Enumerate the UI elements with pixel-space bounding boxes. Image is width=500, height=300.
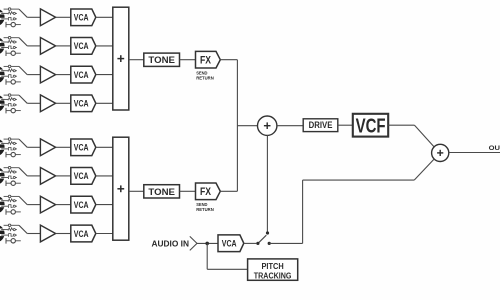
source select switch arm SW1: [19, 9, 27, 17]
wire: [220, 59, 237, 61]
junction J1: [205, 242, 209, 246]
oscillator source icon OSC5: [0, 138, 5, 156]
svg-text:SEND: SEND: [196, 202, 208, 208]
wire: [56, 102, 71, 104]
waveform select contact 1 of OSC2: [4, 36, 19, 39]
switch SW9 input contact: [256, 242, 259, 245]
pulse wave contact 3 of OSC7: [4, 205, 17, 208]
waveform select contact 1 of OSC1: [4, 8, 19, 11]
source select switch arm SW6: [19, 168, 27, 176]
waveform select contact 1 of OSC5: [4, 138, 19, 141]
VCA block VCA4: [71, 95, 96, 112]
wire: [129, 190, 144, 192]
wire: [96, 16, 113, 18]
wire: [96, 45, 113, 47]
triangle wave contact 2 of OSC3: [4, 69, 17, 72]
VCA block VCA5: [71, 139, 96, 156]
wire bypass vertical: [302, 180, 304, 243]
amplifier A6: [40, 168, 55, 185]
svg-text:VCA: VCA: [222, 239, 237, 249]
svg-text:VCF: VCF: [356, 115, 386, 137]
pulse wave contact 3 of OSC3: [4, 75, 17, 78]
amplifier A5: [40, 139, 55, 156]
wire: [56, 233, 71, 235]
FX send/return block FX2: [196, 183, 221, 200]
summing mixer SUM1: [113, 7, 129, 110]
triangle wave contact 2 of OSC8: [4, 228, 17, 231]
summing mixer SUM2: [113, 137, 129, 240]
oscillator source icon OSC6: [0, 167, 5, 185]
triangle wave contact 2 of OSC1: [4, 12, 17, 15]
wire: [27, 16, 40, 18]
svg-text:AUDIO IN: AUDIO IN: [152, 239, 190, 248]
label SEND RETURN for FX1: [196, 70, 214, 81]
source select switch arm SW8: [19, 225, 27, 233]
tone block TONE2: [144, 185, 180, 198]
triangle wave contact 2 of OSC7: [4, 199, 17, 202]
tone block TONE1: [144, 53, 180, 66]
svg-text:VCA: VCA: [74, 13, 89, 23]
svg-text:RETURN: RETURN: [196, 207, 214, 213]
external input contact 4 of OSC1: [6, 22, 21, 28]
svg-text:SEND: SEND: [196, 70, 208, 76]
svg-text:RETURN: RETURN: [196, 76, 214, 82]
VCA block VCA6: [71, 168, 96, 185]
wire: [56, 175, 71, 177]
pulse wave contact 3 of OSC8: [4, 234, 17, 237]
wire: [96, 74, 113, 76]
svg-text:VCA: VCA: [74, 200, 89, 210]
oscillator source icon OSC4: [0, 94, 5, 112]
VCA block VCA9 (audio in): [218, 235, 244, 252]
wire output: [449, 152, 500, 154]
summing node N2 (output): [432, 144, 449, 161]
triangle wave contact 2 of OSC6: [4, 170, 17, 173]
wire: [27, 175, 40, 177]
pulse wave contact 3 of OSC6: [4, 176, 17, 179]
wire: [56, 146, 71, 148]
oscillator source icon OSC1: [0, 8, 5, 26]
waveform select contact 1 of OSC8: [4, 224, 19, 227]
FX send/return block FX1: [196, 51, 221, 68]
VCA block VCA2: [71, 38, 96, 55]
wire: [96, 204, 113, 206]
drive block DRIVE: [303, 119, 338, 132]
wire: [96, 102, 113, 104]
pulse wave contact 3 of OSC5: [4, 147, 17, 150]
source select switch arm SW7: [19, 196, 27, 204]
wire: [338, 124, 353, 126]
oscillator source icon OSC8: [0, 225, 5, 243]
wire: [27, 74, 40, 76]
source select switch arm SW3: [19, 66, 27, 74]
triangle wave contact 2 of OSC2: [4, 40, 17, 43]
switch SW9 pole contact: [266, 231, 269, 234]
wire FX bus vertical: [236, 60, 238, 192]
wire: [388, 124, 414, 126]
wire: [27, 45, 40, 47]
wire diagonal into output node from bypass: [414, 159, 434, 180]
wire: [56, 74, 71, 76]
waveform select contact 1 of OSC4: [4, 94, 19, 97]
wire: [56, 204, 71, 206]
wire from node N1 down to switch: [266, 135, 268, 232]
external input contact 4 of OSC5: [6, 152, 21, 158]
svg-text:VCA: VCA: [74, 229, 89, 239]
svg-text:DRIVE: DRIVE: [309, 120, 333, 131]
wire: [129, 59, 144, 61]
waveform select contact 1 of OSC7: [4, 195, 19, 198]
VCA block VCA8: [71, 225, 96, 242]
wire: [244, 242, 257, 244]
oscillator source icon OSC2: [0, 37, 5, 55]
wire pitch branch vertical: [206, 243, 208, 269]
svg-text:OUT: OUT: [489, 145, 500, 152]
wire: [220, 190, 237, 192]
amplifier A1: [40, 9, 55, 26]
wire bypass top horizontal: [303, 179, 415, 181]
wire diagonal into output node: [415, 125, 435, 147]
VCA block VCA1: [71, 9, 96, 26]
wire: [197, 242, 218, 244]
pulse wave contact 3 of OSC4: [4, 103, 17, 106]
wire pitch branch horizontal: [207, 268, 247, 270]
svg-text:VCA: VCA: [74, 143, 89, 153]
external input contact 4 of OSC2: [6, 51, 21, 57]
source select switch arm SW2: [19, 38, 27, 46]
wire bypass horizontal: [269, 242, 302, 244]
svg-text:FX: FX: [200, 186, 212, 198]
external input contact 4 of OSC8: [6, 238, 21, 244]
pulse wave contact 3 of OSC2: [4, 46, 17, 49]
wire: [96, 233, 113, 235]
waveform select contact 1 of OSC3: [4, 65, 19, 68]
external input contact 4 of OSC7: [6, 209, 21, 215]
external input contact 4 of OSC4: [6, 108, 21, 114]
amplifier A7: [40, 196, 55, 213]
wire: [96, 175, 113, 177]
waveform select contact 1 of OSC6: [4, 166, 19, 169]
VCA block VCA7: [71, 196, 96, 213]
label SEND RETURN for FX2: [196, 202, 214, 213]
external input contact 4 of OSC6: [6, 181, 21, 187]
VCA block VCA3: [71, 66, 96, 83]
oscillator source icon OSC7: [0, 196, 5, 214]
svg-text:VCA: VCA: [74, 41, 89, 51]
source select switch arm SW5: [19, 139, 27, 147]
amplifier A2: [40, 38, 55, 55]
svg-text:FX: FX: [200, 54, 212, 66]
amplifier A3: [40, 66, 55, 83]
svg-text:VCA: VCA: [74, 171, 89, 181]
wire into mix node: [237, 125, 257, 127]
summing node N1: [258, 116, 277, 135]
switch SW9 bypass contact: [268, 242, 271, 245]
svg-text:TONE: TONE: [148, 187, 175, 198]
svg-text:VCA: VCA: [74, 70, 89, 80]
source select switch arm SW4: [19, 95, 27, 103]
pulse wave contact 3 of OSC1: [4, 17, 17, 20]
amplifier A4: [40, 95, 55, 112]
wire: [277, 125, 303, 127]
wire: [56, 45, 71, 47]
pitch tracking block PT1: [248, 259, 298, 280]
filter block VCF: [353, 114, 388, 138]
wire: [27, 102, 40, 104]
wire: [180, 190, 196, 192]
switch SW9 arm: [258, 235, 266, 243]
audio input jack chevron: [190, 236, 197, 250]
svg-text:TONE: TONE: [148, 55, 175, 66]
oscillator source icon OSC3: [0, 66, 5, 84]
external input contact 4 of OSC3: [6, 79, 21, 85]
wire: [27, 204, 40, 206]
triangle wave contact 2 of OSC5: [4, 142, 17, 145]
svg-text:VCA: VCA: [74, 99, 89, 109]
amplifier A8: [40, 225, 55, 242]
wire: [56, 16, 71, 18]
wire: [27, 146, 40, 148]
wire: [27, 233, 40, 235]
wire: [96, 146, 113, 148]
svg-text:TRACKING: TRACKING: [254, 270, 292, 280]
wire: [180, 59, 196, 61]
triangle wave contact 2 of OSC4: [4, 98, 17, 101]
